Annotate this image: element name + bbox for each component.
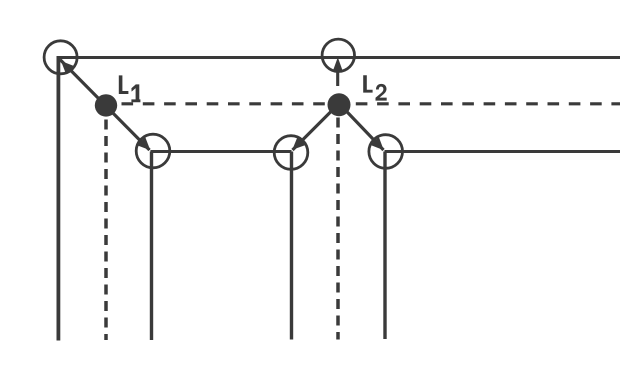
arrowhead up-left into top-left corner xyxy=(61,61,74,74)
wire left wall vertical xyxy=(57,56,61,341)
wire diagonal arrow corner1 to corner2 through L1 xyxy=(60,60,150,151)
dashed vertical line below L1 xyxy=(104,120,108,341)
wire vertical wall at x=291 xyxy=(290,152,293,340)
wire top wall horizontal xyxy=(57,56,620,59)
dashed vertical line below L2 xyxy=(336,118,340,340)
arrowhead up from L2 to circle on wall xyxy=(333,57,343,72)
wire vertical wall at x=151 xyxy=(150,152,153,341)
wire vertical wall at x=385 xyxy=(383,152,386,340)
landmark dot L1 xyxy=(95,94,117,116)
landmark dot L2 xyxy=(328,93,351,116)
label L2 subscript 2 xyxy=(376,84,387,101)
wire diagonal L2 to corner at x=385 xyxy=(340,105,384,151)
circle marker corner at x=291 xyxy=(274,136,308,170)
circle marker corner at x=385 xyxy=(369,135,403,169)
circle marker above L2 on top wall xyxy=(322,39,354,71)
label L2 letter L xyxy=(363,75,372,92)
wire inner wall horizontal right segment xyxy=(385,150,621,153)
dashed horizontal line through L1 and L2 xyxy=(122,102,621,105)
wire inner wall horizontal left segment xyxy=(151,150,292,153)
wire vertical arrow stem from L2 up xyxy=(336,68,339,86)
arrowhead down-right into corner x=385 xyxy=(371,137,384,150)
circle marker top-left corner xyxy=(44,41,77,74)
label L1 subscript 1 xyxy=(131,84,140,102)
arrowhead down-left into corner x=291 xyxy=(292,137,305,150)
label L1 letter L xyxy=(119,75,129,94)
wire diagonal L2 to corner at x=291 xyxy=(293,105,339,151)
arrowhead down-right into corner x=151 xyxy=(137,137,150,150)
circle marker corner at x=151 xyxy=(136,134,170,168)
